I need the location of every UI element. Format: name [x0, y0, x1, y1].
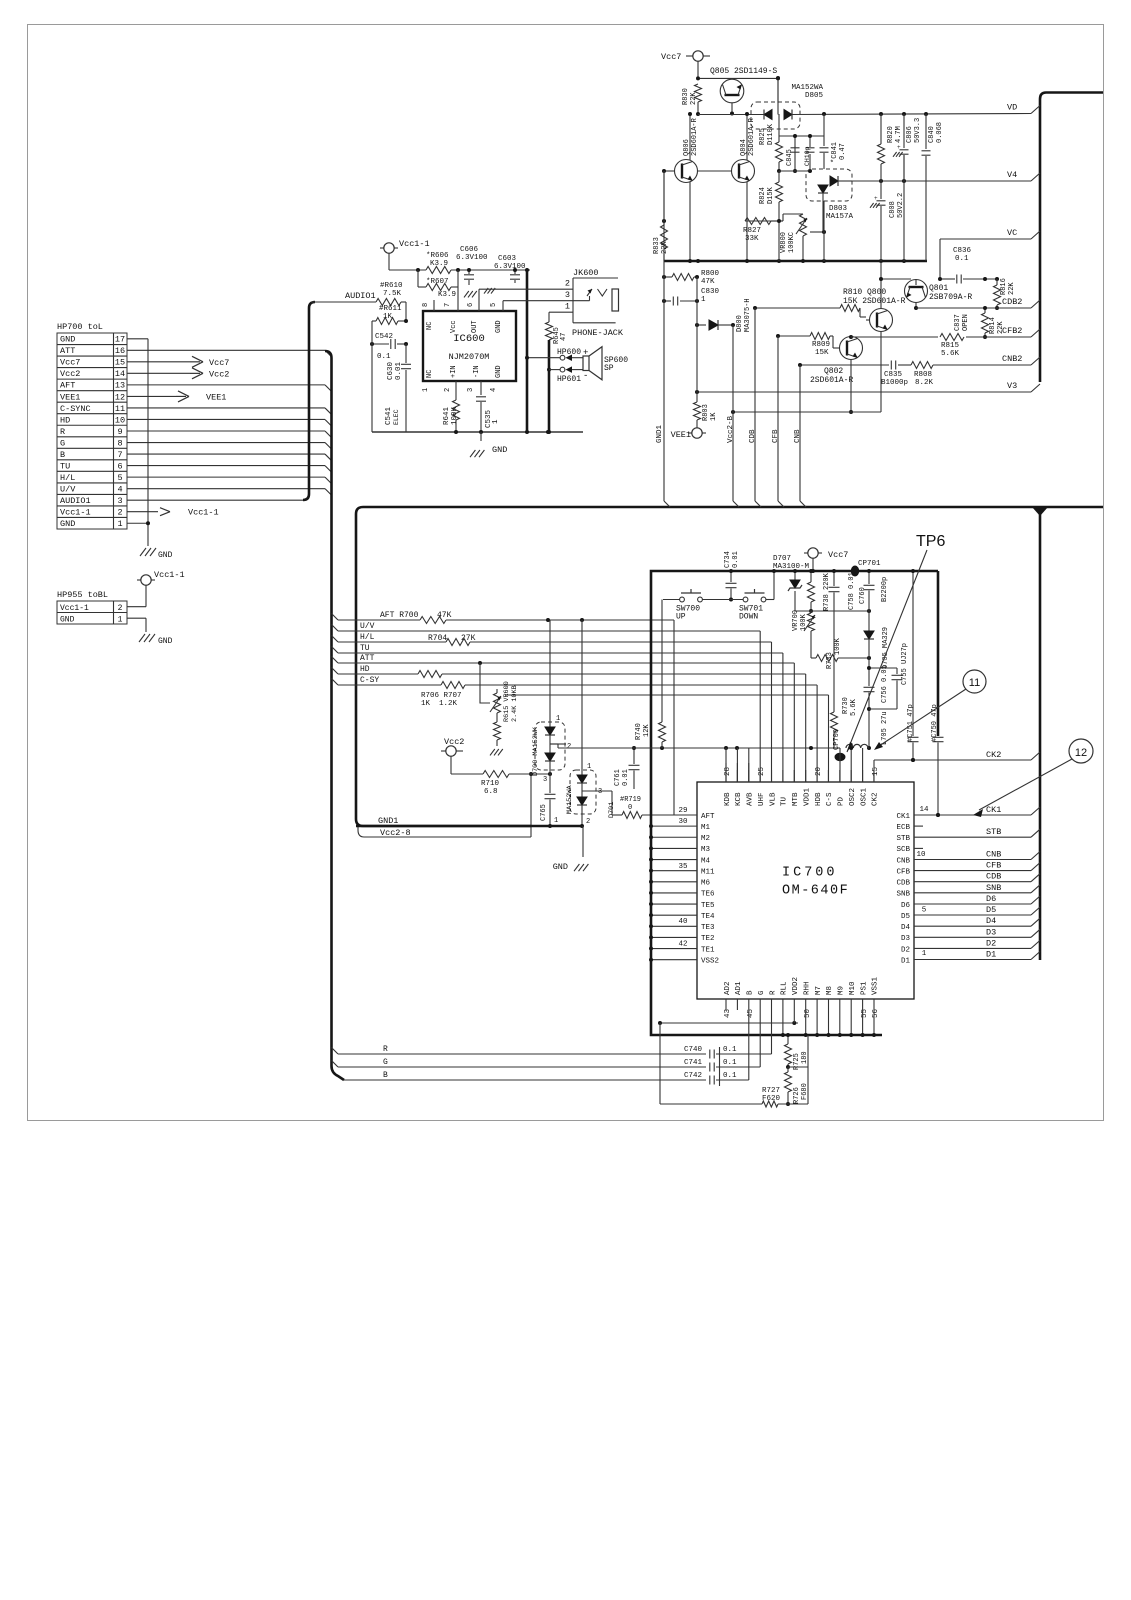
svg-text:1: 1 — [118, 616, 123, 625]
wire bold rail 261 — [664, 259, 927, 263]
net D5 — [914, 905, 1040, 915]
capacitor C806 — [893, 114, 922, 181]
svg-text:D110K: D110K — [767, 123, 775, 145]
svg-text:VEE1: VEE1 — [60, 392, 80, 402]
svg-text:R803: R803 — [702, 404, 710, 421]
svg-text:RLL: RLL — [781, 981, 789, 995]
resistor R809 — [776, 333, 833, 358]
wire HP700 row 9 to bus — [127, 443, 332, 450]
svg-text:G: G — [383, 1058, 388, 1067]
resistor R808 label — [914, 371, 934, 387]
wire M10 drop — [849, 999, 853, 1037]
wire pin7 Vcc — [456, 268, 460, 311]
svg-text:D700 MA152WK: D700 MA152WK — [532, 726, 540, 776]
net CDB — [914, 872, 1040, 882]
svg-text:M10: M10 — [849, 981, 857, 995]
svg-text:C535: C535 — [485, 409, 493, 428]
wire Vcc2-B vertical — [727, 325, 735, 501]
wire VSS1 drop — [872, 999, 876, 1037]
resistor R814 — [982, 306, 1006, 339]
resistor R738 — [808, 569, 832, 613]
svg-text:CK1: CK1 — [986, 805, 1001, 815]
net V4 — [1007, 170, 1040, 181]
label B — [383, 1071, 388, 1080]
svg-text:Vcc1-1: Vcc1-1 — [188, 508, 219, 518]
ground IC600 — [470, 432, 507, 457]
svg-text:2SB709A-R: 2SB709A-R — [929, 293, 972, 302]
svg-text:C741: C741 — [684, 1059, 703, 1067]
wire HP700 row 4 to bus — [127, 385, 332, 392]
svg-text:M9: M9 — [838, 986, 846, 995]
svg-text:CNB: CNB — [794, 429, 802, 443]
net CFB — [914, 861, 1040, 871]
svg-text:PHONE-JACK: PHONE-JACK — [572, 328, 624, 338]
svg-text:-IN: -IN — [473, 365, 481, 378]
svg-text:1: 1 — [556, 715, 560, 723]
capacitor C765 — [540, 774, 558, 828]
svg-text:CP700: CP700 — [833, 729, 841, 750]
resistor R706 labels — [421, 692, 462, 708]
svg-text:2SD601A-R: 2SD601A-R — [810, 376, 853, 385]
svg-text:1: 1 — [422, 388, 430, 392]
svg-text:SNB: SNB — [896, 891, 910, 899]
inductor L705 — [846, 711, 889, 748]
svg-text:R830: R830 — [682, 88, 690, 105]
bus inner box — [651, 571, 938, 1035]
svg-text:CFB2: CFB2 — [1002, 326, 1022, 336]
svg-text:TE6: TE6 — [701, 891, 715, 899]
resistor R825 — [759, 114, 783, 173]
svg-text:NC: NC — [426, 322, 434, 330]
net D1 — [914, 950, 1040, 960]
svg-text:7: 7 — [444, 303, 452, 307]
svg-text:C630: C630 — [387, 361, 395, 380]
svg-text:CFB: CFB — [986, 861, 1001, 871]
svg-text:+: + — [897, 144, 901, 151]
resistor R816 — [994, 278, 1017, 310]
speaker SP600 — [583, 347, 628, 380]
svg-text:1: 1 — [554, 817, 558, 825]
resistor R726 — [785, 1067, 810, 1106]
wire VC line — [940, 238, 1031, 240]
svg-text:D6: D6 — [986, 894, 996, 904]
terminal VEE1 — [671, 428, 706, 440]
wire bold out — [526, 270, 529, 432]
wire Q805 collector — [696, 76, 778, 80]
svg-text:C845: C845 — [786, 149, 794, 166]
wire M9 drop — [838, 999, 842, 1037]
svg-text:100K: 100K — [800, 613, 808, 631]
svg-text:TU: TU — [60, 461, 70, 471]
svg-text:Q802: Q802 — [824, 367, 843, 376]
svg-text:14: 14 — [919, 806, 929, 814]
svg-text:F620: F620 — [762, 1095, 781, 1103]
svg-text:D4: D4 — [901, 924, 911, 932]
svg-text:STB: STB — [896, 835, 910, 843]
svg-text:8: 8 — [422, 303, 430, 307]
svg-text:0.1: 0.1 — [723, 1059, 737, 1067]
wire Q802 collector — [849, 335, 853, 339]
pin HP600 — [525, 348, 588, 361]
net ATT — [338, 654, 794, 665]
svg-text:MA3075-H: MA3075-H — [744, 298, 752, 332]
arrow VEE1 — [127, 391, 226, 403]
svg-text:R: R — [769, 990, 777, 995]
svg-text:6.8: 6.8 — [484, 788, 498, 796]
svg-text:Vcc1-1: Vcc1-1 — [60, 508, 91, 518]
svg-text:33K: 33K — [745, 235, 759, 243]
svg-text:C541: C541 — [385, 406, 393, 425]
wire pin5 GND — [502, 301, 504, 311]
wire CNB2 line — [798, 361, 1031, 370]
svg-text:Vcc7: Vcc7 — [60, 358, 80, 368]
capacitor C756 — [864, 658, 890, 750]
resistor R610 — [376, 282, 406, 321]
svg-text:SCB: SCB — [896, 846, 910, 854]
svg-text:D3: D3 — [901, 935, 911, 943]
svg-text:U/V: U/V — [60, 484, 76, 494]
svg-text:TP6: TP6 — [916, 533, 945, 550]
net D2 — [914, 938, 1040, 948]
diode D705 — [864, 611, 890, 669]
label R — [383, 1045, 388, 1054]
svg-text:HD: HD — [360, 665, 370, 674]
svg-text:1K: 1K — [383, 313, 393, 321]
svg-text:2: 2 — [565, 279, 570, 289]
svg-text:1: 1 — [565, 302, 570, 312]
svg-text:56: 56 — [872, 1008, 880, 1018]
svg-text:8.2K: 8.2K — [915, 379, 934, 387]
wire AUDIO1 pin3 — [127, 499, 303, 501]
svg-text:D707: D707 — [773, 555, 791, 563]
svg-text:C830: C830 — [701, 288, 720, 296]
net V3 — [1007, 381, 1040, 392]
callout 12 — [979, 739, 1093, 810]
svg-text:GND1: GND1 — [378, 816, 398, 826]
connector JK600 phone jack — [565, 268, 624, 338]
net CDB2 — [1002, 297, 1040, 308]
net CK1 — [914, 805, 1040, 817]
bus right vertical — [1039, 514, 1042, 960]
svg-text:R726: R726 — [793, 1087, 801, 1104]
transistor Q806 — [662, 117, 699, 182]
connector HP700 — [57, 322, 127, 529]
wire HP955 GND — [127, 618, 173, 646]
wire AD2 stub — [725, 999, 727, 1010]
wire mid horizontal 748 — [0, 0, 1, 1]
svg-text:0.1: 0.1 — [723, 1072, 737, 1080]
wire AUDIO1 bold riser — [303, 302, 315, 500]
wire VDD2 drop — [793, 999, 795, 1023]
wire Q801 emitter — [914, 303, 918, 311]
svg-text:VEE1: VEE1 — [671, 430, 691, 440]
svg-text:3: 3 — [565, 290, 570, 300]
label TP6 — [847, 533, 945, 752]
svg-text:M2: M2 — [701, 835, 710, 843]
capacitor C755 — [867, 643, 909, 709]
capacitor C740 — [684, 1046, 772, 1060]
resistor R830 — [682, 84, 702, 116]
net SNB — [914, 883, 1040, 893]
wire V4 line — [852, 179, 1031, 183]
svg-text:U/V: U/V — [360, 622, 375, 631]
svg-text:-: - — [583, 371, 588, 381]
net HD — [338, 665, 806, 678]
svg-text:12: 12 — [115, 392, 125, 402]
svg-text:ECB: ECB — [896, 824, 910, 832]
svg-text:IC600: IC600 — [453, 333, 485, 345]
potentiometer VR600 — [480, 681, 519, 722]
svg-text:D15K: D15K — [767, 186, 775, 204]
svg-text:G: G — [758, 990, 766, 995]
pad CP700 — [833, 729, 846, 782]
wire diode line VD — [698, 112, 1031, 116]
svg-text:R810 Q800: R810 Q800 — [843, 288, 886, 297]
wire pin6 OUT — [478, 289, 480, 311]
resistor R719 — [582, 791, 674, 819]
svg-text:0: 0 — [628, 804, 632, 812]
svg-text:3: 3 — [467, 388, 475, 392]
svg-text:43: 43 — [724, 1008, 732, 1018]
svg-text:22K: 22K — [690, 92, 698, 105]
svg-text:GND: GND — [158, 551, 173, 560]
svg-text:1: 1 — [701, 296, 706, 304]
svg-text:5: 5 — [490, 303, 498, 307]
svg-text:TE2: TE2 — [701, 935, 715, 943]
svg-text:2SD601A-R: 2SD601A-R — [748, 117, 756, 156]
svg-text:R814: R814 — [989, 317, 997, 334]
wire SW700 left drop — [661, 600, 663, 723]
capacitor C845 — [779, 136, 810, 173]
capacitor C751 — [907, 569, 919, 762]
svg-text:1: 1 — [922, 950, 927, 958]
svg-text:+: + — [874, 195, 878, 202]
svg-text:AFT R700: AFT R700 — [380, 611, 419, 620]
svg-text:10: 10 — [916, 851, 926, 859]
svg-text:CNB: CNB — [986, 850, 1001, 860]
svg-text:Vcc2-8: Vcc2-8 — [380, 828, 411, 838]
resistor R730 — [831, 697, 859, 748]
resistor R645 — [546, 322, 569, 344]
bus left bold — [325, 351, 344, 1080]
svg-text:KDB: KDB — [724, 792, 732, 806]
transistor Q805 — [710, 67, 777, 114]
svg-text:40: 40 — [678, 918, 688, 926]
svg-text:7.5K: 7.5K — [383, 290, 402, 298]
svg-text:14: 14 — [115, 369, 125, 379]
svg-text:6: 6 — [467, 303, 475, 307]
svg-text:Vcc2: Vcc2 — [444, 737, 464, 747]
wire H/L staircase — [771, 642, 773, 782]
net U/V — [338, 622, 445, 631]
svg-text:K3.9: K3.9 — [430, 260, 448, 268]
svg-text:R800: R800 — [701, 270, 720, 278]
resistor R606 — [426, 252, 451, 274]
svg-text:2.4K 10KB: 2.4K 10KB — [511, 685, 519, 722]
transistor Q801 — [905, 280, 973, 303]
svg-text:VSS1: VSS1 — [872, 976, 880, 995]
resistor R607 — [418, 278, 458, 299]
bus merge notch GND1 — [664, 501, 670, 507]
svg-text:CNB: CNB — [896, 857, 910, 865]
wire HP700 row 12 to bus — [127, 477, 332, 484]
wire HP700 row 1 to bus — [127, 350, 332, 357]
resistor R800 — [662, 270, 720, 286]
svg-text:1: 1 — [587, 763, 591, 771]
pin HP601 — [549, 366, 588, 384]
net D6 — [914, 894, 1040, 904]
svg-text:Vcc1-1: Vcc1-1 — [60, 604, 89, 613]
svg-text:0.47: 0.47 — [839, 143, 847, 160]
resistor R827 — [743, 218, 783, 244]
svg-text:AUDIO1: AUDIO1 — [60, 496, 91, 506]
wire C841 down — [823, 201, 825, 261]
svg-text:15: 15 — [872, 766, 880, 776]
capacitor C734 — [724, 551, 740, 601]
wire V3 line — [695, 390, 1031, 394]
svg-text:C806: C806 — [906, 126, 914, 143]
svg-text:GND: GND — [553, 862, 568, 872]
terminal Vcc7 top — [661, 51, 710, 80]
wire 748 horizontal — [550, 744, 840, 750]
wire M8 drop — [827, 999, 831, 1037]
wire Q804 emitter — [745, 182, 749, 264]
svg-text:2: 2 — [444, 388, 452, 392]
svg-text:VDD2: VDD2 — [792, 977, 800, 995]
svg-text:D803: D803 — [829, 205, 848, 213]
svg-text:OSC2: OSC2 — [849, 788, 857, 806]
capacitor C836 — [953, 247, 999, 284]
svg-text:22K: 22K — [1008, 282, 1016, 295]
capacitor C603 — [494, 255, 526, 283]
svg-text:1K: 1K — [710, 412, 718, 421]
svg-text:47: 47 — [560, 333, 568, 341]
svg-text:+IN: +IN — [450, 365, 458, 378]
svg-text:100KC: 100KC — [788, 232, 796, 253]
wire AUDIO1 label — [311, 291, 376, 302]
svg-text:#R719: #R719 — [620, 796, 641, 804]
svg-text:AD2: AD2 — [724, 981, 732, 995]
svg-text:D705 MA329: D705 MA329 — [882, 627, 890, 669]
IC700 top pin labels — [724, 766, 880, 806]
svg-text:CK2: CK2 — [986, 750, 1001, 760]
svg-text:C837: C837 — [954, 314, 962, 331]
svg-text:CP701: CP701 — [858, 560, 881, 568]
wire RHH drop — [804, 999, 808, 1037]
svg-text:M6: M6 — [701, 880, 711, 888]
svg-text:CDB: CDB — [896, 880, 910, 888]
svg-text:22K: 22K — [661, 241, 669, 254]
svg-text:M4: M4 — [701, 857, 711, 865]
wire G drop — [759, 999, 761, 1067]
svg-text:3: 3 — [598, 788, 602, 796]
label CK1 arrow — [973, 809, 983, 817]
svg-text:R727: R727 — [762, 1087, 780, 1095]
svg-text:TU: TU — [360, 644, 370, 653]
connector HP955 — [57, 590, 127, 625]
svg-text:C-SYNC: C-SYNC — [60, 404, 91, 414]
svg-text:D1: D1 — [986, 950, 996, 960]
svg-text:8: 8 — [117, 438, 122, 448]
svg-text:AUDIO1: AUDIO1 — [345, 291, 376, 301]
wire 1104 rail — [660, 1023, 808, 1104]
wire IC600 ground rail — [372, 430, 583, 434]
svg-text:6: 6 — [117, 461, 122, 471]
svg-text:0.1: 0.1 — [955, 255, 969, 263]
svg-text:#R611: #R611 — [379, 305, 402, 313]
wire D700 mid tap — [550, 743, 566, 745]
wire IC700 top pin stubs — [726, 748, 874, 782]
svg-text:VEE1: VEE1 — [206, 392, 226, 402]
svg-text:CK1: CK1 — [896, 813, 910, 821]
svg-text:C742: C742 — [684, 1072, 702, 1080]
svg-text:#R610: #R610 — [380, 282, 403, 290]
wire Vcc rail to bold — [525, 268, 529, 283]
wire HP700 row 10 to bus — [127, 454, 332, 461]
svg-text:R820: R820 — [887, 126, 895, 143]
svg-text:R815: R815 — [941, 342, 960, 350]
wire jack pin3 — [503, 296, 590, 301]
wire HP700 row 11 to bus — [127, 466, 332, 473]
label G — [383, 1058, 388, 1067]
capacitor C835 label — [881, 371, 908, 387]
bus top right — [1040, 93, 1103, 383]
svg-text:HP955 toBL: HP955 toBL — [57, 590, 108, 600]
IC op-amp IC600 box — [423, 311, 516, 381]
svg-text:R808: R808 — [914, 371, 932, 379]
wire OSC stubs — [849, 746, 862, 782]
net VC — [1007, 228, 1040, 239]
svg-text:2: 2 — [586, 818, 590, 826]
svg-text:M8: M8 — [826, 986, 834, 995]
svg-text:MA152WA: MA152WA — [566, 785, 574, 814]
wire Vcc2-8 line — [358, 816, 531, 838]
svg-text:D5: D5 — [986, 905, 996, 915]
svg-text:42: 42 — [678, 941, 687, 949]
bus merge notch Vcc2-B — [733, 501, 739, 507]
svg-text:CDB: CDB — [986, 872, 1001, 882]
bus merge notch CFB — [778, 501, 784, 507]
wire top tap — [779, 114, 824, 138]
svg-text:MA152WA: MA152WA — [791, 84, 823, 92]
IC600 bottom pin labels — [422, 365, 503, 392]
wire Q800 collector to base line — [881, 262, 911, 279]
svg-text:D800: D800 — [736, 315, 744, 332]
net D3 — [914, 927, 1040, 937]
switch SW700 — [663, 589, 743, 622]
svg-text:R816: R816 — [1000, 278, 1008, 295]
svg-text:VLB: VLB — [769, 792, 777, 806]
svg-text:R: R — [60, 427, 65, 437]
wire pin8 NC — [433, 300, 435, 311]
resistor R824 — [745, 171, 783, 221]
potentiometer VR800 — [771, 214, 826, 263]
svg-text:Vcc1-1: Vcc1-1 — [154, 570, 185, 580]
resistor R815 — [940, 334, 964, 359]
wire B drop — [748, 999, 750, 1080]
wire Vcc rail — [389, 268, 530, 287]
terminal Vcc1-1 — [380, 239, 430, 270]
svg-text:C835: C835 — [884, 371, 903, 379]
wire HP700 row 6 to bus — [127, 408, 332, 415]
svg-text:Vcc: Vcc — [450, 320, 458, 333]
capacitor C630 — [387, 344, 411, 432]
svg-text:47K: 47K — [701, 278, 715, 286]
svg-text:Vcc2: Vcc2 — [60, 369, 80, 379]
diode D800 — [695, 298, 752, 332]
svg-text:11: 11 — [969, 677, 980, 689]
svg-text:DOWN: DOWN — [739, 613, 758, 622]
